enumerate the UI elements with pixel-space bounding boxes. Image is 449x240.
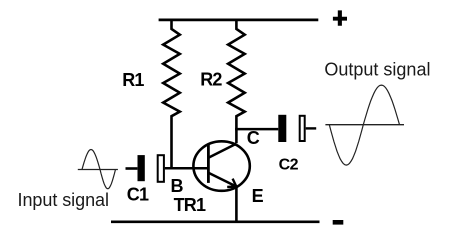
- svg-text:C1: C1: [127, 184, 149, 204]
- transistor TR1 emitter stroke: [208, 173, 236, 187]
- svg-text:B: B: [171, 176, 184, 196]
- capacitor C1 left plate (filled): [138, 155, 145, 181]
- output signal axis line: [325, 124, 404, 126]
- transistor TR1 body circle: [193, 141, 249, 191]
- capacitor C2 right lead: [306, 127, 317, 129]
- svg-text:R2: R2: [200, 70, 222, 90]
- input signal axis line: [78, 169, 118, 171]
- resistor R2: [228, 20, 245, 143]
- svg-text:Input signal: Input signal: [18, 190, 109, 210]
- capacitor C1 right plate (hollow): [158, 155, 164, 182]
- svg-text:C: C: [247, 128, 260, 148]
- wire: base to C1: [165, 167, 208, 170]
- bottom power rail (-) wire: [111, 220, 320, 223]
- transistor TR1 base bar: [207, 145, 210, 183]
- svg-text:E: E: [252, 186, 264, 206]
- capacitor C2 right plate (hollow): [300, 116, 305, 141]
- capacitor C1 left lead: [126, 167, 138, 170]
- transistor TR1 collector stroke: [208, 144, 236, 158]
- svg-text:R1: R1: [122, 70, 144, 90]
- top power rail (+) wire: [159, 19, 319, 22]
- svg-text:Output signal: Output signal: [324, 59, 430, 79]
- transistor TR1 emitter arrowhead barb lower: [227, 185, 236, 188]
- wire: collector node to C2: [235, 128, 278, 131]
- output signal sine wave: [329, 85, 399, 165]
- transistor TR1 emitter arrowhead barb upper: [233, 179, 237, 187]
- resistor R1: [163, 20, 180, 168]
- svg-text:C2: C2: [279, 157, 299, 174]
- minus terminal symbol: [333, 220, 344, 225]
- plus terminal symbol: [333, 10, 347, 25]
- wire: emitter to bottom rail: [235, 187, 238, 222]
- input signal sine wave: [82, 150, 116, 189]
- svg-text:TR1: TR1: [174, 195, 206, 215]
- capacitor C2 left plate (filled): [278, 115, 286, 142]
